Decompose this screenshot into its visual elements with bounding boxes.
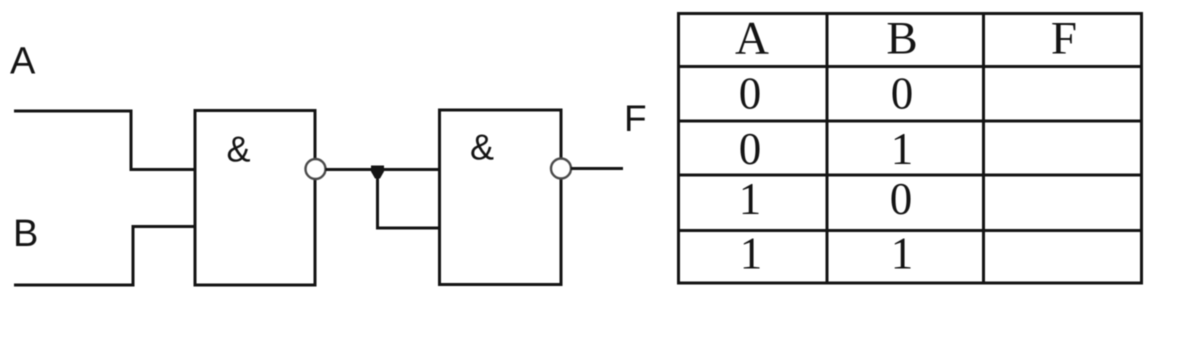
svg-text:1: 1 — [891, 124, 914, 174]
gate U2 output bubble — [551, 159, 571, 179]
svg-text:F: F — [1051, 13, 1077, 65]
wire F output — [571, 167, 623, 170]
svg-text:&: & — [470, 127, 494, 168]
svg-text:B: B — [886, 13, 917, 65]
svg-text:B: B — [13, 213, 38, 255]
svg-text:&: & — [226, 129, 250, 170]
wire B input — [14, 227, 195, 286]
svg-text:0: 0 — [739, 124, 762, 174]
svg-text:0: 0 — [739, 69, 762, 119]
svg-text:0: 0 — [891, 69, 914, 119]
truth table grid — [679, 14, 1142, 284]
svg-text:1: 1 — [739, 174, 762, 224]
svg-text:0: 0 — [890, 174, 913, 224]
svg-text:1: 1 — [891, 229, 914, 279]
wire A input — [14, 111, 195, 170]
svg-text:F: F — [624, 98, 647, 139]
wire branch to U2 lower input — [378, 172, 440, 228]
NAND gate U2 body — [440, 110, 562, 285]
svg-text:A: A — [10, 41, 36, 83]
gate U1 output bubble — [306, 159, 326, 179]
NAND gate U1 body — [195, 111, 315, 286]
svg-text:A: A — [735, 13, 769, 65]
junction node — [371, 166, 384, 179]
wire U1 output to U2 upper input — [326, 168, 440, 171]
svg-text:1: 1 — [740, 229, 763, 279]
